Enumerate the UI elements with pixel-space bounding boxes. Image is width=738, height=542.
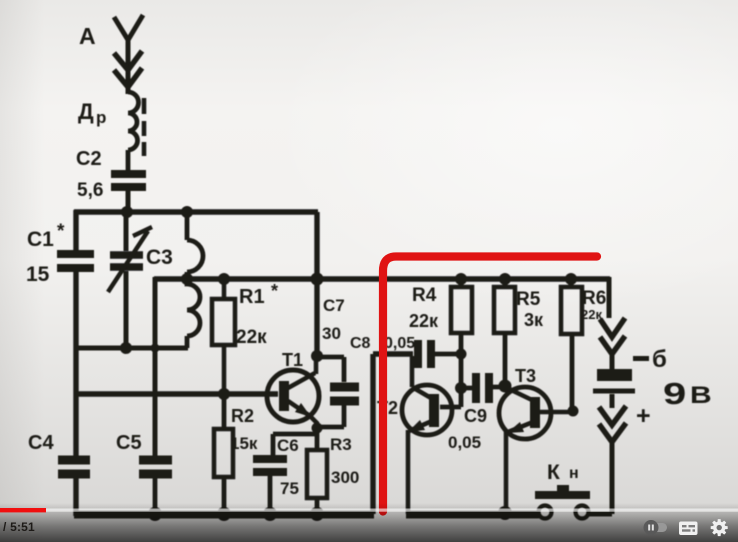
svg-text:R4: R4 [412, 285, 437, 306]
node R5 top [499, 273, 511, 285]
transistor T2 [377, 356, 452, 514]
capacitor C8 [350, 335, 461, 368]
svg-text:C4: C4 [28, 432, 54, 454]
resistor R6 [561, 279, 606, 412]
player scrim [0, 503, 738, 542]
svg-text:б: б [652, 346, 667, 373]
capacitor C2 [76, 148, 146, 214]
svg-text:T3: T3 [515, 366, 536, 386]
settings gear icon [711, 519, 728, 536]
wire emitter node [273, 428, 317, 450]
wire bottom rail left [74, 511, 374, 519]
svg-text:9: 9 [663, 376, 686, 411]
node coil top [181, 206, 193, 218]
node R3 bottom [310, 507, 324, 521]
wire top rail [74, 209, 318, 214]
svg-text:R2: R2 [231, 406, 254, 426]
wire ground column [373, 354, 413, 514]
svg-text:5,6: 5,6 [77, 180, 103, 201]
node coil tap [181, 273, 193, 285]
node R1/R2 [218, 388, 230, 400]
svg-text:15: 15 [26, 263, 50, 286]
svg-text:р: р [96, 108, 106, 127]
progress track [0, 509, 738, 512]
wire rail2 [154, 276, 610, 281]
svg-text:C3: C3 [146, 246, 173, 269]
resistor R1 [212, 279, 278, 396]
wire right edge down [607, 277, 612, 318]
svg-text:R1: R1 [239, 286, 265, 308]
transistor T3 [499, 366, 574, 514]
capacitor C1 [26, 221, 94, 286]
node R1 top [218, 273, 230, 285]
resistor R2 [214, 394, 258, 516]
resistor R3 [307, 435, 359, 516]
svg-text:C5: C5 [116, 432, 142, 454]
svg-text:+: + [636, 402, 651, 430]
node C5 bottom [148, 507, 162, 521]
node R6 top [565, 273, 577, 285]
svg-text:/ 5:51: / 5:51 [3, 520, 35, 534]
node C3 bottom [120, 342, 132, 354]
progress bar played [0, 508, 46, 512]
capacitor C4 [28, 432, 90, 474]
svg-text:T1: T1 [282, 350, 303, 370]
node antenna/rail [121, 206, 133, 218]
antenna A [79, 15, 143, 94]
svg-text:*: * [57, 221, 65, 242]
node emitter/C7 [312, 423, 323, 434]
node T3 base/R6 [568, 406, 579, 417]
svg-text:C2: C2 [76, 148, 102, 170]
wire collector column [314, 212, 319, 357]
node collector [311, 350, 323, 362]
wire left edge [73, 210, 78, 516]
pushbutton Kn [535, 461, 590, 519]
svg-text:*: * [271, 281, 278, 301]
svg-text:22к: 22к [236, 327, 267, 348]
svg-text:A: A [79, 23, 96, 49]
svg-text:R6: R6 [582, 288, 606, 309]
svg-text:Д: Д [78, 99, 94, 124]
capacitor C7 [318, 296, 359, 427]
battery GB1 9V [589, 318, 712, 514]
svg-text:0,05: 0,05 [448, 433, 481, 452]
node R4 top [455, 273, 467, 285]
red annotation line [383, 257, 597, 512]
wire tap-column [153, 277, 158, 456]
transistor T1 [267, 350, 319, 428]
svg-text:C6: C6 [277, 436, 299, 455]
capacitor C3 (variable) [108, 212, 173, 348]
svg-text:C7: C7 [323, 296, 345, 315]
svg-text:C9: C9 [464, 406, 487, 426]
svg-text:3к: 3к [524, 310, 544, 330]
svg-text:R5: R5 [516, 289, 541, 310]
svg-text:75: 75 [280, 479, 299, 498]
svg-text:0,05: 0,05 [384, 335, 415, 352]
node C9 left [455, 382, 467, 394]
resistor R4 [409, 279, 472, 407]
svg-text:В: В [690, 381, 712, 408]
subtitles icon [679, 522, 698, 536]
autoplay toggle icon [644, 520, 668, 535]
capacitor C9 [448, 373, 506, 452]
node R5/C9/T3 [499, 380, 512, 393]
capacitor C6 [253, 434, 299, 516]
svg-text:300: 300 [331, 468, 359, 487]
wire base rail [74, 391, 278, 396]
svg-text:C1: C1 [27, 228, 54, 251]
node rail2/collector column [311, 273, 324, 286]
wire loop bottom [74, 346, 188, 351]
capacitor C5 [116, 432, 172, 516]
svg-text:н: н [569, 465, 579, 482]
svg-text:С8: С8 [350, 335, 371, 352]
inductor L1 (tank coil) [187, 212, 203, 348]
node T3 emitter bottom [498, 506, 512, 520]
choke Dr [78, 92, 144, 171]
node C6 bottom [263, 507, 277, 521]
svg-text:К: К [547, 461, 560, 484]
node C8/R4 [456, 349, 467, 360]
svg-text:15к: 15к [230, 434, 258, 453]
svg-text:R3: R3 [330, 435, 352, 454]
wire bottom rail right [406, 511, 539, 519]
node R2 bottom [217, 507, 231, 521]
resistor R5 [494, 279, 544, 386]
svg-text:30: 30 [322, 324, 341, 343]
svg-text:22к: 22к [409, 311, 439, 331]
node tap column/loop bottom [151, 344, 160, 353]
